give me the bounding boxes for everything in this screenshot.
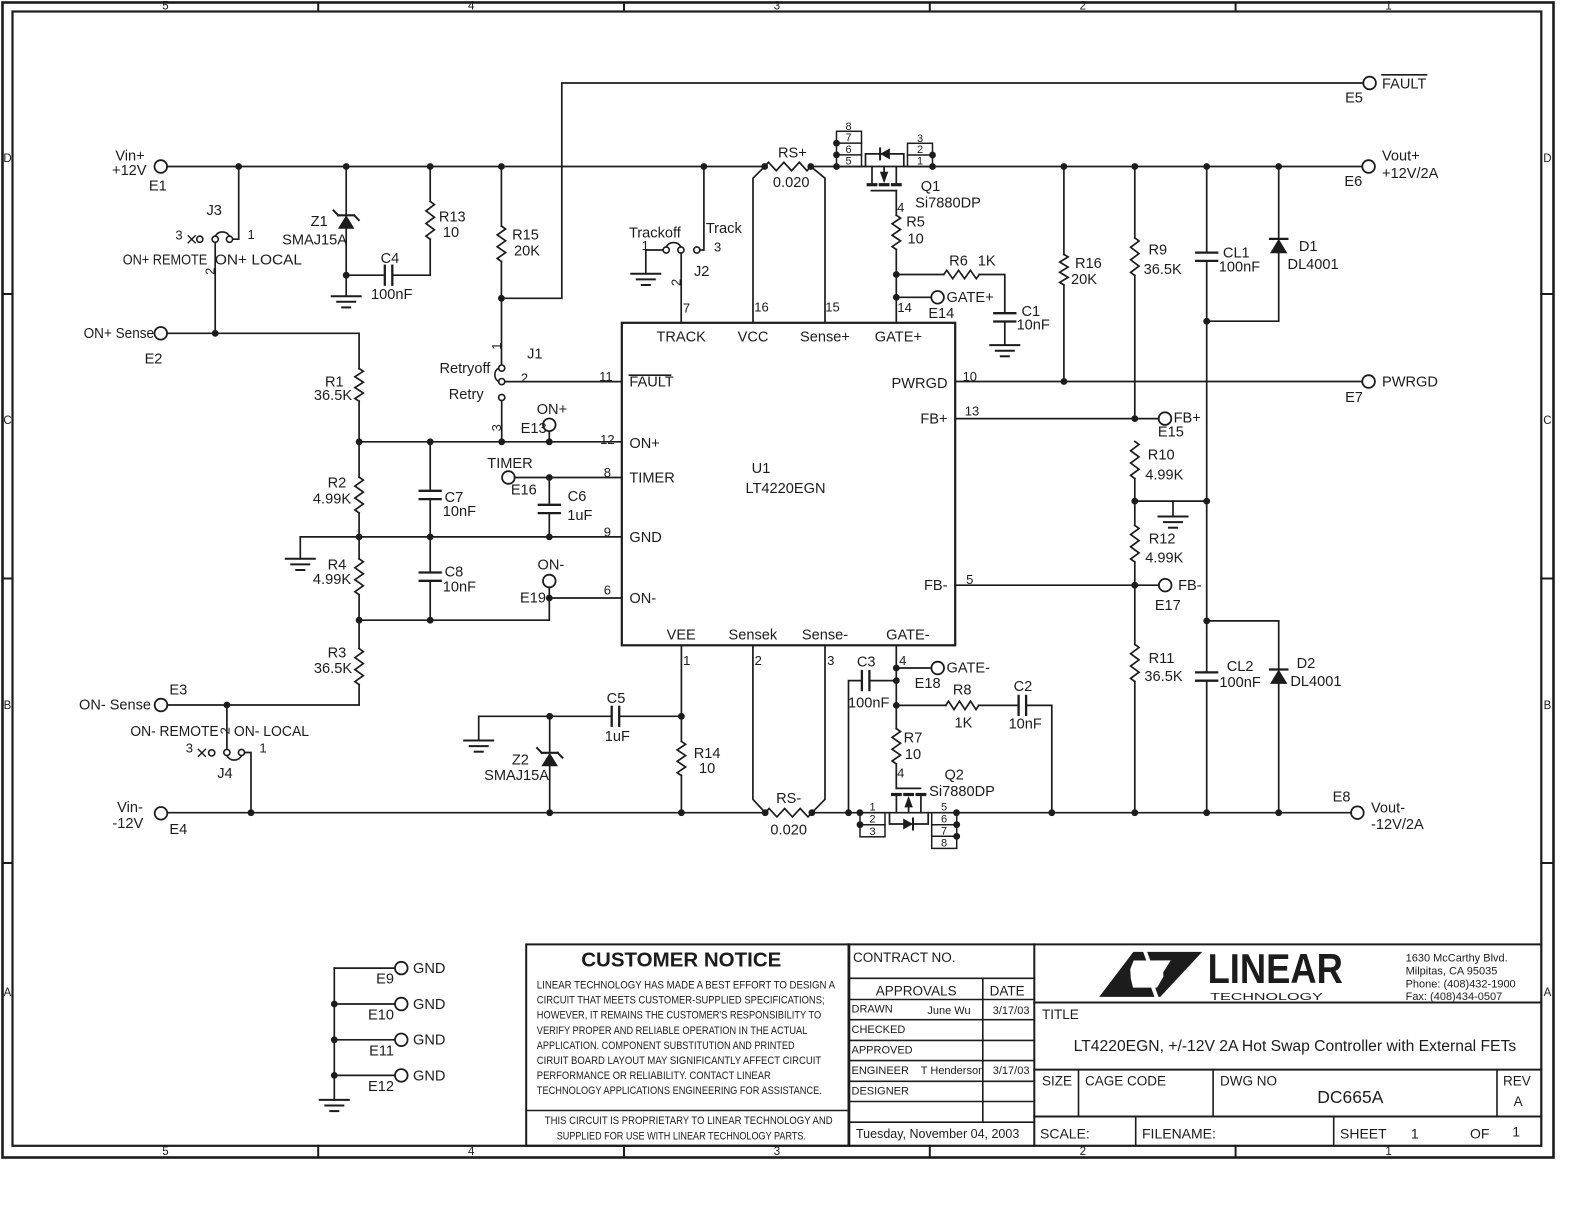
svg-text:SCALE:: SCALE: bbox=[1040, 1126, 1090, 1142]
svg-text:ON- LOCAL: ON- LOCAL bbox=[234, 724, 309, 740]
svg-text:ON+: ON+ bbox=[629, 436, 659, 452]
node R5/R6 junction bbox=[893, 271, 900, 278]
svg-text:11: 11 bbox=[599, 369, 613, 384]
node junction dots on -12V rail bbox=[248, 809, 1283, 816]
capacitor C1 10nF bbox=[994, 304, 1050, 345]
svg-text:J1: J1 bbox=[527, 346, 542, 362]
capacitor C2 10nF bbox=[1009, 679, 1052, 813]
svg-text:APPROVALS: APPROVALS bbox=[876, 983, 957, 998]
wire J3 pin2 to E2 line bbox=[214, 242, 216, 333]
svg-text:3: 3 bbox=[774, 1, 780, 13]
svg-text:DATE: DATE bbox=[990, 983, 1025, 998]
ground at GND pin 9 bbox=[286, 537, 315, 570]
node Z1/C4 junction bbox=[343, 272, 350, 279]
transistor Q2 pin box 5/6/7/8 bbox=[932, 801, 960, 849]
svg-text:SIZE: SIZE bbox=[1042, 1074, 1072, 1089]
svg-text:R3: R3 bbox=[328, 646, 347, 662]
svg-text:CHECKED: CHECKED bbox=[852, 1024, 906, 1036]
svg-text:E1: E1 bbox=[149, 179, 167, 195]
svg-text:10nF: 10nF bbox=[1009, 717, 1042, 733]
wire E3 line bbox=[167, 702, 359, 709]
svg-text:10nF: 10nF bbox=[443, 579, 476, 595]
svg-text:DWG NO: DWG NO bbox=[1220, 1074, 1277, 1089]
svg-text:TITLE: TITLE bbox=[1042, 1007, 1079, 1022]
transistor Q1 Si7880DP MOSFET symbol bbox=[866, 148, 981, 211]
svg-text:E15: E15 bbox=[1158, 425, 1184, 441]
svg-text:E14: E14 bbox=[928, 306, 954, 322]
svg-text:CIRUIT BOARD LAYOUT MAY SIGNIF: CIRUIT BOARD LAYOUT MAY SIGNIFICANTLY AF… bbox=[537, 1055, 822, 1067]
svg-text:1: 1 bbox=[489, 342, 504, 349]
svg-text:6: 6 bbox=[845, 144, 851, 156]
wire ON- net pin 6 bbox=[359, 582, 622, 620]
svg-text:VERIFY PROPER AND RELIABLE OPE: VERIFY PROPER AND RELIABLE OPERATION IN … bbox=[537, 1025, 808, 1037]
svg-text:GATE-: GATE- bbox=[886, 628, 930, 644]
svg-text:4.99K: 4.99K bbox=[313, 572, 351, 588]
terminal E17 FB- bbox=[1135, 578, 1202, 614]
svg-text:C4: C4 bbox=[381, 251, 400, 267]
svg-text:FB-: FB- bbox=[924, 578, 948, 594]
svg-text:ON-: ON- bbox=[538, 558, 565, 574]
svg-text:D2: D2 bbox=[1297, 656, 1316, 672]
svg-text:LINEAR: LINEAR bbox=[1208, 945, 1343, 992]
wire GATE- pin 4 bbox=[896, 645, 906, 728]
svg-text:Si7880DP: Si7880DP bbox=[915, 195, 981, 211]
svg-text:PWRGD: PWRGD bbox=[1382, 375, 1438, 391]
svg-text:E19: E19 bbox=[520, 591, 546, 607]
wire TIMER pin 8 bbox=[515, 465, 622, 481]
svg-text:FILENAME:: FILENAME: bbox=[1142, 1126, 1216, 1142]
svg-text:R11: R11 bbox=[1149, 651, 1175, 667]
diode D2 DL4001 bbox=[1270, 621, 1341, 813]
svg-text:7: 7 bbox=[941, 826, 947, 838]
wire CL1 long vertical bbox=[1206, 321, 1208, 621]
svg-text:ON+ Sense: ON+ Sense bbox=[84, 326, 155, 342]
svg-text:8: 8 bbox=[941, 837, 947, 849]
capacitor CL1 100nF bbox=[1196, 167, 1260, 322]
svg-text:7: 7 bbox=[845, 132, 851, 144]
terminal E15 FB+ bbox=[1135, 411, 1201, 441]
zener Z1 SMAJ15A bbox=[282, 167, 359, 276]
svg-text:9: 9 bbox=[604, 525, 611, 540]
svg-text:Si7880DP: Si7880DP bbox=[929, 784, 995, 800]
ground at J2 pin1 bbox=[631, 250, 660, 285]
terminal E18 GATE- bbox=[896, 661, 990, 693]
resistor R12 4.99K bbox=[1131, 501, 1184, 585]
node R8 junction bbox=[893, 702, 900, 709]
svg-text:REV: REV bbox=[1503, 1074, 1531, 1089]
wire Sense+ tap pin 15 bbox=[811, 167, 840, 323]
svg-text:R13: R13 bbox=[439, 209, 466, 225]
svg-text:R5: R5 bbox=[906, 214, 925, 230]
terminal E16 TIMER bbox=[487, 456, 536, 498]
svg-text:15: 15 bbox=[825, 300, 839, 315]
svg-text:J2: J2 bbox=[694, 264, 709, 280]
wire J2 pin1 + label bbox=[642, 238, 663, 253]
capacitor C7 10nF bbox=[420, 442, 476, 537]
svg-text:DC665A: DC665A bbox=[1317, 1087, 1383, 1107]
svg-text:Z1: Z1 bbox=[311, 214, 328, 230]
svg-text:A: A bbox=[1514, 1094, 1523, 1109]
svg-text:TECHNOLOGY APPLICATIONS ENGINE: TECHNOLOGY APPLICATIONS ENGINEERING FOR … bbox=[537, 1085, 822, 1097]
svg-text:June Wu: June Wu bbox=[927, 1005, 970, 1017]
capacitor C6 1uF bbox=[539, 478, 593, 537]
svg-text:Phone: (408)432-1900: Phone: (408)432-1900 bbox=[1406, 978, 1516, 990]
svg-text:100nF: 100nF bbox=[371, 287, 412, 303]
node E18 junction bbox=[893, 665, 900, 672]
svg-text:3: 3 bbox=[827, 653, 834, 668]
svg-text:13: 13 bbox=[965, 403, 979, 418]
svg-text:A: A bbox=[4, 987, 12, 999]
svg-text:D1: D1 bbox=[1299, 239, 1318, 255]
svg-text:20K: 20K bbox=[514, 244, 540, 260]
transistor Q2 Si7880DP MOSFET symbol bbox=[890, 767, 995, 829]
wire VEE pin 1 bbox=[681, 645, 690, 716]
svg-text:ON+: ON+ bbox=[537, 402, 567, 418]
svg-text:R8: R8 bbox=[953, 682, 972, 698]
svg-text:GND: GND bbox=[413, 997, 445, 1013]
resistor R7 10 bbox=[892, 729, 922, 789]
svg-text:DESIGNER: DESIGNER bbox=[852, 1085, 910, 1097]
terminal E10 GND bbox=[334, 997, 445, 1024]
svg-text:5: 5 bbox=[941, 801, 947, 813]
resistor RS- 0.020 bbox=[765, 791, 812, 838]
ground below Z1 bbox=[332, 275, 361, 307]
svg-text:6: 6 bbox=[941, 814, 947, 826]
resistor R4 4.99K bbox=[313, 537, 363, 620]
svg-text:R9: R9 bbox=[1148, 242, 1167, 258]
svg-text:HOWEVER, IT REMAINS THE CUSTOM: HOWEVER, IT REMAINS THE CUSTOMER'S RESPO… bbox=[537, 1010, 821, 1022]
diode D1 DL4001 bbox=[1270, 167, 1339, 322]
svg-text:E16: E16 bbox=[511, 482, 537, 498]
wire CL1/D1 bottom tie bbox=[1203, 318, 1278, 325]
wire J4 pin1 to Vin- rail bbox=[245, 753, 251, 813]
svg-text:ON+ REMOTE: ON+ REMOTE bbox=[123, 252, 208, 268]
svg-text:4: 4 bbox=[899, 653, 906, 668]
svg-text:5: 5 bbox=[162, 1, 168, 13]
capacitor C4 100nF bbox=[346, 251, 430, 303]
wire -12V rail bbox=[167, 812, 1351, 814]
svg-text:APPROVED: APPROVED bbox=[852, 1044, 913, 1056]
svg-text:Sensek: Sensek bbox=[729, 628, 778, 644]
svg-text:E2: E2 bbox=[145, 352, 163, 368]
svg-text:Sense-: Sense- bbox=[802, 628, 848, 644]
svg-text:PWRGD: PWRGD bbox=[892, 376, 948, 392]
svg-text:CAGE CODE: CAGE CODE bbox=[1085, 1074, 1166, 1089]
svg-text:RS+: RS+ bbox=[778, 146, 807, 162]
title / dwg no / sheet bbox=[1040, 1007, 1531, 1142]
svg-text:E6: E6 bbox=[1344, 174, 1362, 190]
svg-text:ON- REMOTE: ON- REMOTE bbox=[130, 724, 218, 740]
node dots ON+ line bbox=[356, 438, 553, 445]
svg-text:GATE+: GATE+ bbox=[947, 290, 994, 306]
svg-text:C: C bbox=[1543, 415, 1551, 427]
svg-text:R10: R10 bbox=[1148, 448, 1175, 464]
svg-text:Trackoff: Trackoff bbox=[629, 225, 682, 241]
resistor R5 10 bbox=[892, 214, 925, 322]
svg-text:FAULT: FAULT bbox=[1382, 76, 1426, 92]
resistor R2 4.99K bbox=[313, 442, 363, 537]
svg-text:CONTRACT NO.: CONTRACT NO. bbox=[853, 950, 956, 965]
svg-text:Q1: Q1 bbox=[921, 179, 940, 195]
svg-text:R12: R12 bbox=[1149, 532, 1176, 548]
node R10/R12 junction + ground bbox=[1131, 498, 1210, 528]
jumper J2 Track/Trackoff bbox=[629, 221, 743, 286]
svg-text:2: 2 bbox=[218, 727, 233, 734]
resistor R1 36.5K bbox=[314, 369, 363, 442]
jumper J1 Retry/Retryoff bbox=[439, 342, 542, 431]
svg-text:4: 4 bbox=[468, 1146, 475, 1158]
svg-text:SMAJ15A: SMAJ15A bbox=[484, 768, 549, 784]
svg-text:4: 4 bbox=[897, 200, 904, 215]
wire ON+ line pin 12 bbox=[359, 432, 622, 447]
svg-text:C: C bbox=[3, 415, 11, 427]
svg-text:GND: GND bbox=[413, 961, 445, 977]
wire GND line pin 9 bbox=[300, 525, 622, 540]
svg-text:R16: R16 bbox=[1075, 256, 1102, 272]
svg-text:R14: R14 bbox=[694, 746, 721, 762]
resistor R15 20K bbox=[497, 167, 540, 299]
svg-text:0.020: 0.020 bbox=[770, 822, 807, 838]
svg-text:1630 McCarthy Blvd.: 1630 McCarthy Blvd. bbox=[1406, 953, 1508, 965]
terminal E3 ON- Sense bbox=[79, 683, 187, 714]
svg-text:3: 3 bbox=[774, 1146, 780, 1158]
terminal E6 Vout+ bbox=[1344, 148, 1438, 190]
svg-text:36.5K: 36.5K bbox=[1144, 669, 1182, 685]
resistor RS+ 0.020 bbox=[765, 146, 811, 192]
svg-text:E9: E9 bbox=[376, 972, 394, 988]
svg-text:+12V: +12V bbox=[112, 163, 147, 179]
svg-text:2: 2 bbox=[869, 814, 875, 826]
svg-text:SUPPLIED FOR USE WITH LINEAR T: SUPPLIED FOR USE WITH LINEAR TECHNOLOGY … bbox=[557, 1130, 806, 1142]
svg-text:-12V: -12V bbox=[112, 816, 143, 832]
svg-text:VCC: VCC bbox=[738, 329, 769, 345]
svg-text:DL4001: DL4001 bbox=[1290, 674, 1341, 690]
svg-text:Retryoff: Retryoff bbox=[439, 361, 491, 377]
svg-text:E18: E18 bbox=[915, 676, 941, 692]
svg-text:+12V/2A: +12V/2A bbox=[1382, 166, 1439, 182]
ground below C1 bbox=[990, 345, 1019, 356]
resistor R8 1K bbox=[896, 682, 1018, 731]
wire PWRGD pin 10 bbox=[955, 369, 1362, 385]
svg-text:D: D bbox=[3, 153, 11, 165]
resistor R10 4.99K bbox=[1131, 441, 1184, 501]
transistor Q2 pin box 1/2/3 bbox=[857, 801, 885, 838]
svg-text:Sense+: Sense+ bbox=[800, 329, 850, 345]
Linear Technology logo bbox=[1099, 945, 1515, 1003]
svg-text:7: 7 bbox=[683, 300, 690, 315]
wire J4 pin2 from E3 line bbox=[226, 705, 228, 749]
svg-text:3: 3 bbox=[869, 826, 875, 838]
wire FAULT net to E5 bbox=[501, 83, 1363, 298]
title block frame bbox=[849, 944, 1542, 1145]
svg-text:GND: GND bbox=[413, 1068, 445, 1084]
svg-text:FB-: FB- bbox=[1178, 578, 1202, 594]
svg-text:1uF: 1uF bbox=[605, 729, 630, 745]
svg-text:10: 10 bbox=[699, 761, 715, 777]
svg-text:B: B bbox=[1544, 700, 1552, 712]
svg-text:36.5K: 36.5K bbox=[314, 388, 352, 404]
svg-text:FAULT: FAULT bbox=[629, 375, 673, 391]
wire VCC tap pin 16 bbox=[753, 167, 769, 323]
svg-text:1uF: 1uF bbox=[567, 508, 592, 524]
resistor R13 10 bbox=[426, 167, 466, 276]
terminal E14 GATE+ bbox=[896, 290, 993, 322]
node junction dots on +12V rail bbox=[235, 163, 1282, 170]
terminal E1 Vin+ bbox=[112, 149, 167, 195]
resistor R14 10 bbox=[677, 716, 720, 812]
svg-text:10: 10 bbox=[905, 747, 921, 763]
capacitor C5 1uF bbox=[550, 691, 682, 745]
svg-text:TRACK: TRACK bbox=[656, 329, 706, 345]
svg-text:2: 2 bbox=[1080, 1, 1086, 13]
svg-text:2: 2 bbox=[917, 144, 923, 156]
customer notice box bbox=[526, 944, 849, 1145]
svg-text:Vin-: Vin- bbox=[117, 800, 143, 816]
svg-text:R7: R7 bbox=[904, 730, 923, 746]
svg-text:Fax: (408)434-0507: Fax: (408)434-0507 bbox=[1406, 991, 1503, 1003]
svg-text:CIRCUIT THAT MEETS CUSTOMER-SU: CIRCUIT THAT MEETS CUSTOMER-SUPPLIED SPE… bbox=[537, 995, 825, 1007]
node VEE/C5/R14 junction bbox=[678, 713, 685, 720]
svg-text:10: 10 bbox=[907, 232, 923, 248]
svg-text:E17: E17 bbox=[1155, 598, 1181, 614]
svg-text:1: 1 bbox=[259, 741, 266, 756]
svg-text:1: 1 bbox=[247, 227, 254, 242]
svg-text:4: 4 bbox=[897, 766, 904, 781]
svg-text:C3: C3 bbox=[857, 655, 876, 671]
svg-text:4.99K: 4.99K bbox=[1145, 468, 1183, 484]
svg-text:Tuesday, November 04, 2003: Tuesday, November 04, 2003 bbox=[856, 1127, 1019, 1141]
svg-text:14: 14 bbox=[897, 300, 911, 315]
svg-text:3/17/03: 3/17/03 bbox=[993, 1065, 1030, 1077]
svg-text:Vin+: Vin+ bbox=[115, 149, 144, 165]
wire J1 pin3 to ON+ line bbox=[501, 401, 503, 442]
svg-text:12: 12 bbox=[600, 432, 614, 447]
svg-text:E8: E8 bbox=[1333, 789, 1351, 805]
svg-text:100nF: 100nF bbox=[1219, 675, 1260, 691]
node C3 junction bbox=[893, 677, 900, 684]
svg-text:APPLICATION. COMPONENT SUBSTI: APPLICATION. COMPONENT SUBSTITUTION AND … bbox=[537, 1040, 795, 1052]
svg-text:GND: GND bbox=[629, 530, 661, 546]
svg-text:1: 1 bbox=[1411, 1126, 1419, 1142]
wire J3 pin1 to rail bbox=[233, 167, 239, 240]
svg-text:SMAJ15A: SMAJ15A bbox=[282, 233, 347, 249]
svg-text:DRAWN: DRAWN bbox=[852, 1004, 893, 1016]
terminal E9 GND bbox=[334, 961, 445, 988]
wire +12V rail bbox=[167, 166, 1362, 168]
transistor Q1 Si7880DP pin box 3/2/1 bbox=[908, 133, 936, 168]
ground at C5 bbox=[464, 716, 550, 751]
svg-text:PERFORMANCE OR RELIABILITY. C: PERFORMANCE OR RELIABILITY. CONTACT LINE… bbox=[537, 1070, 771, 1082]
terminal E4 Vin- bbox=[112, 800, 187, 838]
svg-text:ON+ LOCAL: ON+ LOCAL bbox=[215, 252, 302, 268]
svg-text:10nF: 10nF bbox=[443, 504, 476, 520]
svg-text:2: 2 bbox=[521, 370, 528, 385]
svg-text:ON- Sense: ON- Sense bbox=[79, 698, 151, 714]
svg-text:TIMER: TIMER bbox=[629, 471, 674, 487]
svg-text:5: 5 bbox=[966, 572, 973, 587]
svg-text:VEE: VEE bbox=[667, 628, 696, 644]
resistor R3 36.5K bbox=[314, 620, 363, 705]
op-amp U1 LT4220EGN bbox=[622, 323, 955, 646]
svg-text:GATE+: GATE+ bbox=[875, 329, 922, 345]
node GATE+/E14 junction bbox=[893, 294, 900, 301]
svg-text:GND: GND bbox=[413, 1033, 445, 1049]
ground at E12 bus bbox=[320, 1100, 349, 1111]
svg-text:C8: C8 bbox=[445, 565, 464, 581]
svg-text:CL2: CL2 bbox=[1227, 659, 1254, 675]
wire FB- pin 5 bbox=[955, 572, 1138, 589]
svg-text:U1: U1 bbox=[752, 461, 771, 477]
svg-text:20K: 20K bbox=[1071, 272, 1097, 288]
node Z2 junction bbox=[546, 713, 553, 720]
svg-text:5: 5 bbox=[845, 156, 851, 168]
svg-text:ON-: ON- bbox=[629, 591, 656, 607]
svg-text:10: 10 bbox=[963, 369, 977, 384]
svg-text:1K: 1K bbox=[978, 254, 996, 270]
svg-text:16: 16 bbox=[754, 300, 768, 315]
svg-text:3/17/03: 3/17/03 bbox=[993, 1005, 1030, 1017]
svg-text:E12: E12 bbox=[368, 1079, 394, 1095]
svg-text:C5: C5 bbox=[607, 691, 626, 707]
svg-text:3: 3 bbox=[175, 228, 182, 243]
node CL2/D2 top tie bbox=[1203, 618, 1278, 625]
svg-text:J4: J4 bbox=[217, 766, 232, 782]
svg-text:2: 2 bbox=[755, 653, 762, 668]
wire R15 to J1 pin1 bbox=[501, 298, 503, 365]
jumper J4 ON- REMOTE/LOCAL bbox=[130, 724, 309, 782]
svg-text:3: 3 bbox=[186, 741, 193, 756]
svg-text:D: D bbox=[1543, 153, 1551, 165]
svg-text:GATE-: GATE- bbox=[947, 661, 991, 677]
svg-text:TIMER: TIMER bbox=[487, 456, 532, 472]
svg-text:2: 2 bbox=[1080, 1146, 1086, 1158]
svg-text:TECHNOLOGY: TECHNOLOGY bbox=[1210, 992, 1323, 1003]
terminal E8 Vout- bbox=[1333, 789, 1424, 833]
svg-text:1: 1 bbox=[1385, 1, 1391, 13]
svg-text:1: 1 bbox=[869, 801, 875, 813]
svg-text:E13: E13 bbox=[521, 421, 547, 437]
node dots ON- net bbox=[356, 595, 553, 624]
resistor R9 36.5K bbox=[1131, 167, 1182, 419]
svg-text:100nF: 100nF bbox=[848, 695, 889, 711]
svg-text:C2: C2 bbox=[1014, 679, 1033, 695]
svg-text:E5: E5 bbox=[1345, 91, 1363, 107]
capacitor CL2 100nF bbox=[1196, 621, 1261, 813]
terminal E2 ON+ Sense bbox=[84, 326, 168, 368]
wire Sense- pin 3 bbox=[812, 645, 834, 812]
svg-text:E10: E10 bbox=[368, 1008, 394, 1024]
svg-text:1: 1 bbox=[1385, 1146, 1391, 1158]
svg-text:Z2: Z2 bbox=[512, 753, 529, 769]
wire Q1 gate to R5, pin 4 bbox=[896, 191, 904, 216]
svg-text:R6: R6 bbox=[949, 254, 968, 270]
resistor R16 20K bbox=[1060, 167, 1102, 382]
svg-text:10: 10 bbox=[443, 225, 459, 241]
svg-text:E3: E3 bbox=[169, 683, 187, 699]
svg-text:LT4220EGN, +/-12V 2A Hot Swap: LT4220EGN, +/-12V 2A Hot Swap Controller… bbox=[1074, 1038, 1517, 1055]
terminal E12 GND bbox=[334, 1068, 445, 1095]
svg-text:A: A bbox=[1544, 987, 1552, 999]
zener Z2 SMAJ15A bbox=[484, 716, 562, 812]
svg-text:E11: E11 bbox=[369, 1043, 394, 1059]
terminal E19 ON- bbox=[520, 558, 564, 607]
svg-text:1K: 1K bbox=[954, 715, 972, 731]
transistor Q1 Si7880DP pin box 8/7/6/5 bbox=[833, 121, 861, 168]
wire J2 pin3 to rail bbox=[700, 167, 704, 251]
wire Sensek pin 2 bbox=[753, 645, 765, 812]
terminal E5 /FAULT bbox=[1345, 75, 1426, 107]
wire J1 pin2 to IC FAULT pin 11 bbox=[505, 369, 622, 384]
